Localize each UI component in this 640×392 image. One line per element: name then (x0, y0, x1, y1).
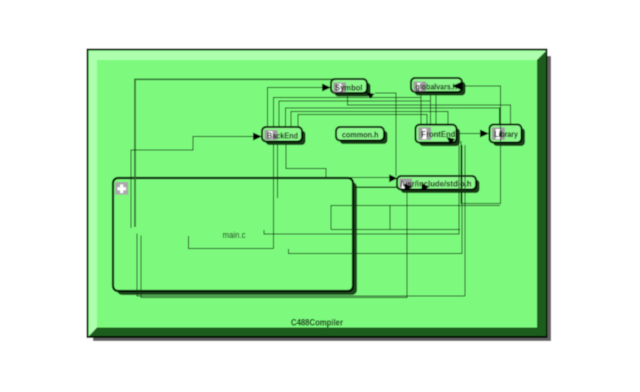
node main.c (expanded subsystem box) (113, 178, 357, 295)
wire globalvars.h to FrontEnd 1 (420, 92, 422, 124)
arrow into Symbol bottom right (366, 93, 375, 99)
wire BackEnd to FrontEnd 2 (279, 101, 431, 127)
wire BackEnd stub down 2 (273, 141, 275, 249)
node BackEnd (262, 127, 306, 145)
arrow into Symbol left (322, 84, 331, 92)
svg-text:BackEnd: BackEnd (267, 131, 298, 141)
arrow into globalvars right (452, 82, 461, 90)
wire Symbol to Library (348, 93, 511, 124)
wire into stdio bottom 2 (353, 186, 421, 188)
arrow inside stdio bottom 1 (405, 183, 413, 190)
window bevel light (89, 51, 546, 336)
node globalvars.h (411, 78, 466, 96)
wire main.c to stdio (bottom route) (141, 189, 407, 298)
arrow inside stdio bottom 2 (422, 183, 430, 190)
wire main.c to BackEnd (131, 137, 254, 229)
wire main.c label bracket (189, 236, 274, 249)
arrow into Library left (480, 130, 489, 138)
node common.h (336, 127, 388, 144)
wire globalvars.h to FrontEnd 3 (435, 92, 437, 124)
wire main.c inner horizontal (331, 229, 460, 231)
svg-text:Library: Library (494, 129, 518, 139)
wire t2 down left (289, 145, 463, 253)
wire channel riser (389, 205, 391, 229)
wire FrontEnd to Library (457, 133, 482, 135)
wire main.c to stdio (top edge) (350, 177, 389, 179)
wire main.c to FrontEnd (bottom route) (137, 234, 465, 297)
wire t3 down to stdio bottom (464, 145, 466, 296)
node /usr/include/stdio.h (397, 176, 480, 193)
plus icon main.c (115, 182, 128, 195)
svg-text:main.c: main.c (223, 230, 246, 240)
node Symbol (331, 79, 371, 97)
wire stdio to Symbol (375, 93, 396, 176)
svg-text:C488Compiler: C488Compiler (291, 318, 343, 329)
wire main.c to Symbol (dark green) (135, 79, 333, 227)
wire BackEnd to Library 1 (286, 108, 500, 127)
window drop shadow (93, 56, 551, 341)
svg-text:globalvars.h: globalvars.h (416, 82, 458, 92)
window C488Compiler (88, 50, 547, 338)
wire main.c inner to Library channel (331, 205, 500, 229)
window bevel dark (89, 51, 546, 336)
arrows (under nodes) (253, 84, 489, 141)
svg-text:Symbol: Symbol (335, 83, 363, 93)
arrows over nodes (366, 82, 461, 191)
wire BackEnd to FrontEnd 4 (298, 114, 427, 127)
wire BackEnd stub down 1 (276, 141, 278, 198)
wire into stdio bottom 1 (353, 186, 404, 188)
wire t1 FrontEnd down left (264, 145, 459, 234)
wire BackEnd to FrontEnd 1 (274, 97, 422, 127)
node Library (490, 125, 526, 147)
window interior (97, 60, 537, 328)
arrow into stdio left (389, 174, 397, 182)
wire BackEnd to main.c (286, 141, 326, 178)
arrow into BackEnd left (253, 133, 262, 141)
wire FrontEnd down and up into globalvars (461, 86, 500, 203)
wire BackEnd to FrontEnd 3 (291, 111, 448, 127)
wire globalvars.h to FrontEnd 2 (430, 92, 432, 124)
node FrontEnd (416, 125, 461, 147)
arrow into FrontEnd bottom right (447, 137, 456, 145)
edges over nodes (264, 86, 500, 296)
svg-text:FrontEnd: FrontEnd (421, 129, 455, 139)
svg-text:common.h: common.h (342, 130, 379, 140)
wire BackEnd to Symbol (268, 88, 325, 128)
